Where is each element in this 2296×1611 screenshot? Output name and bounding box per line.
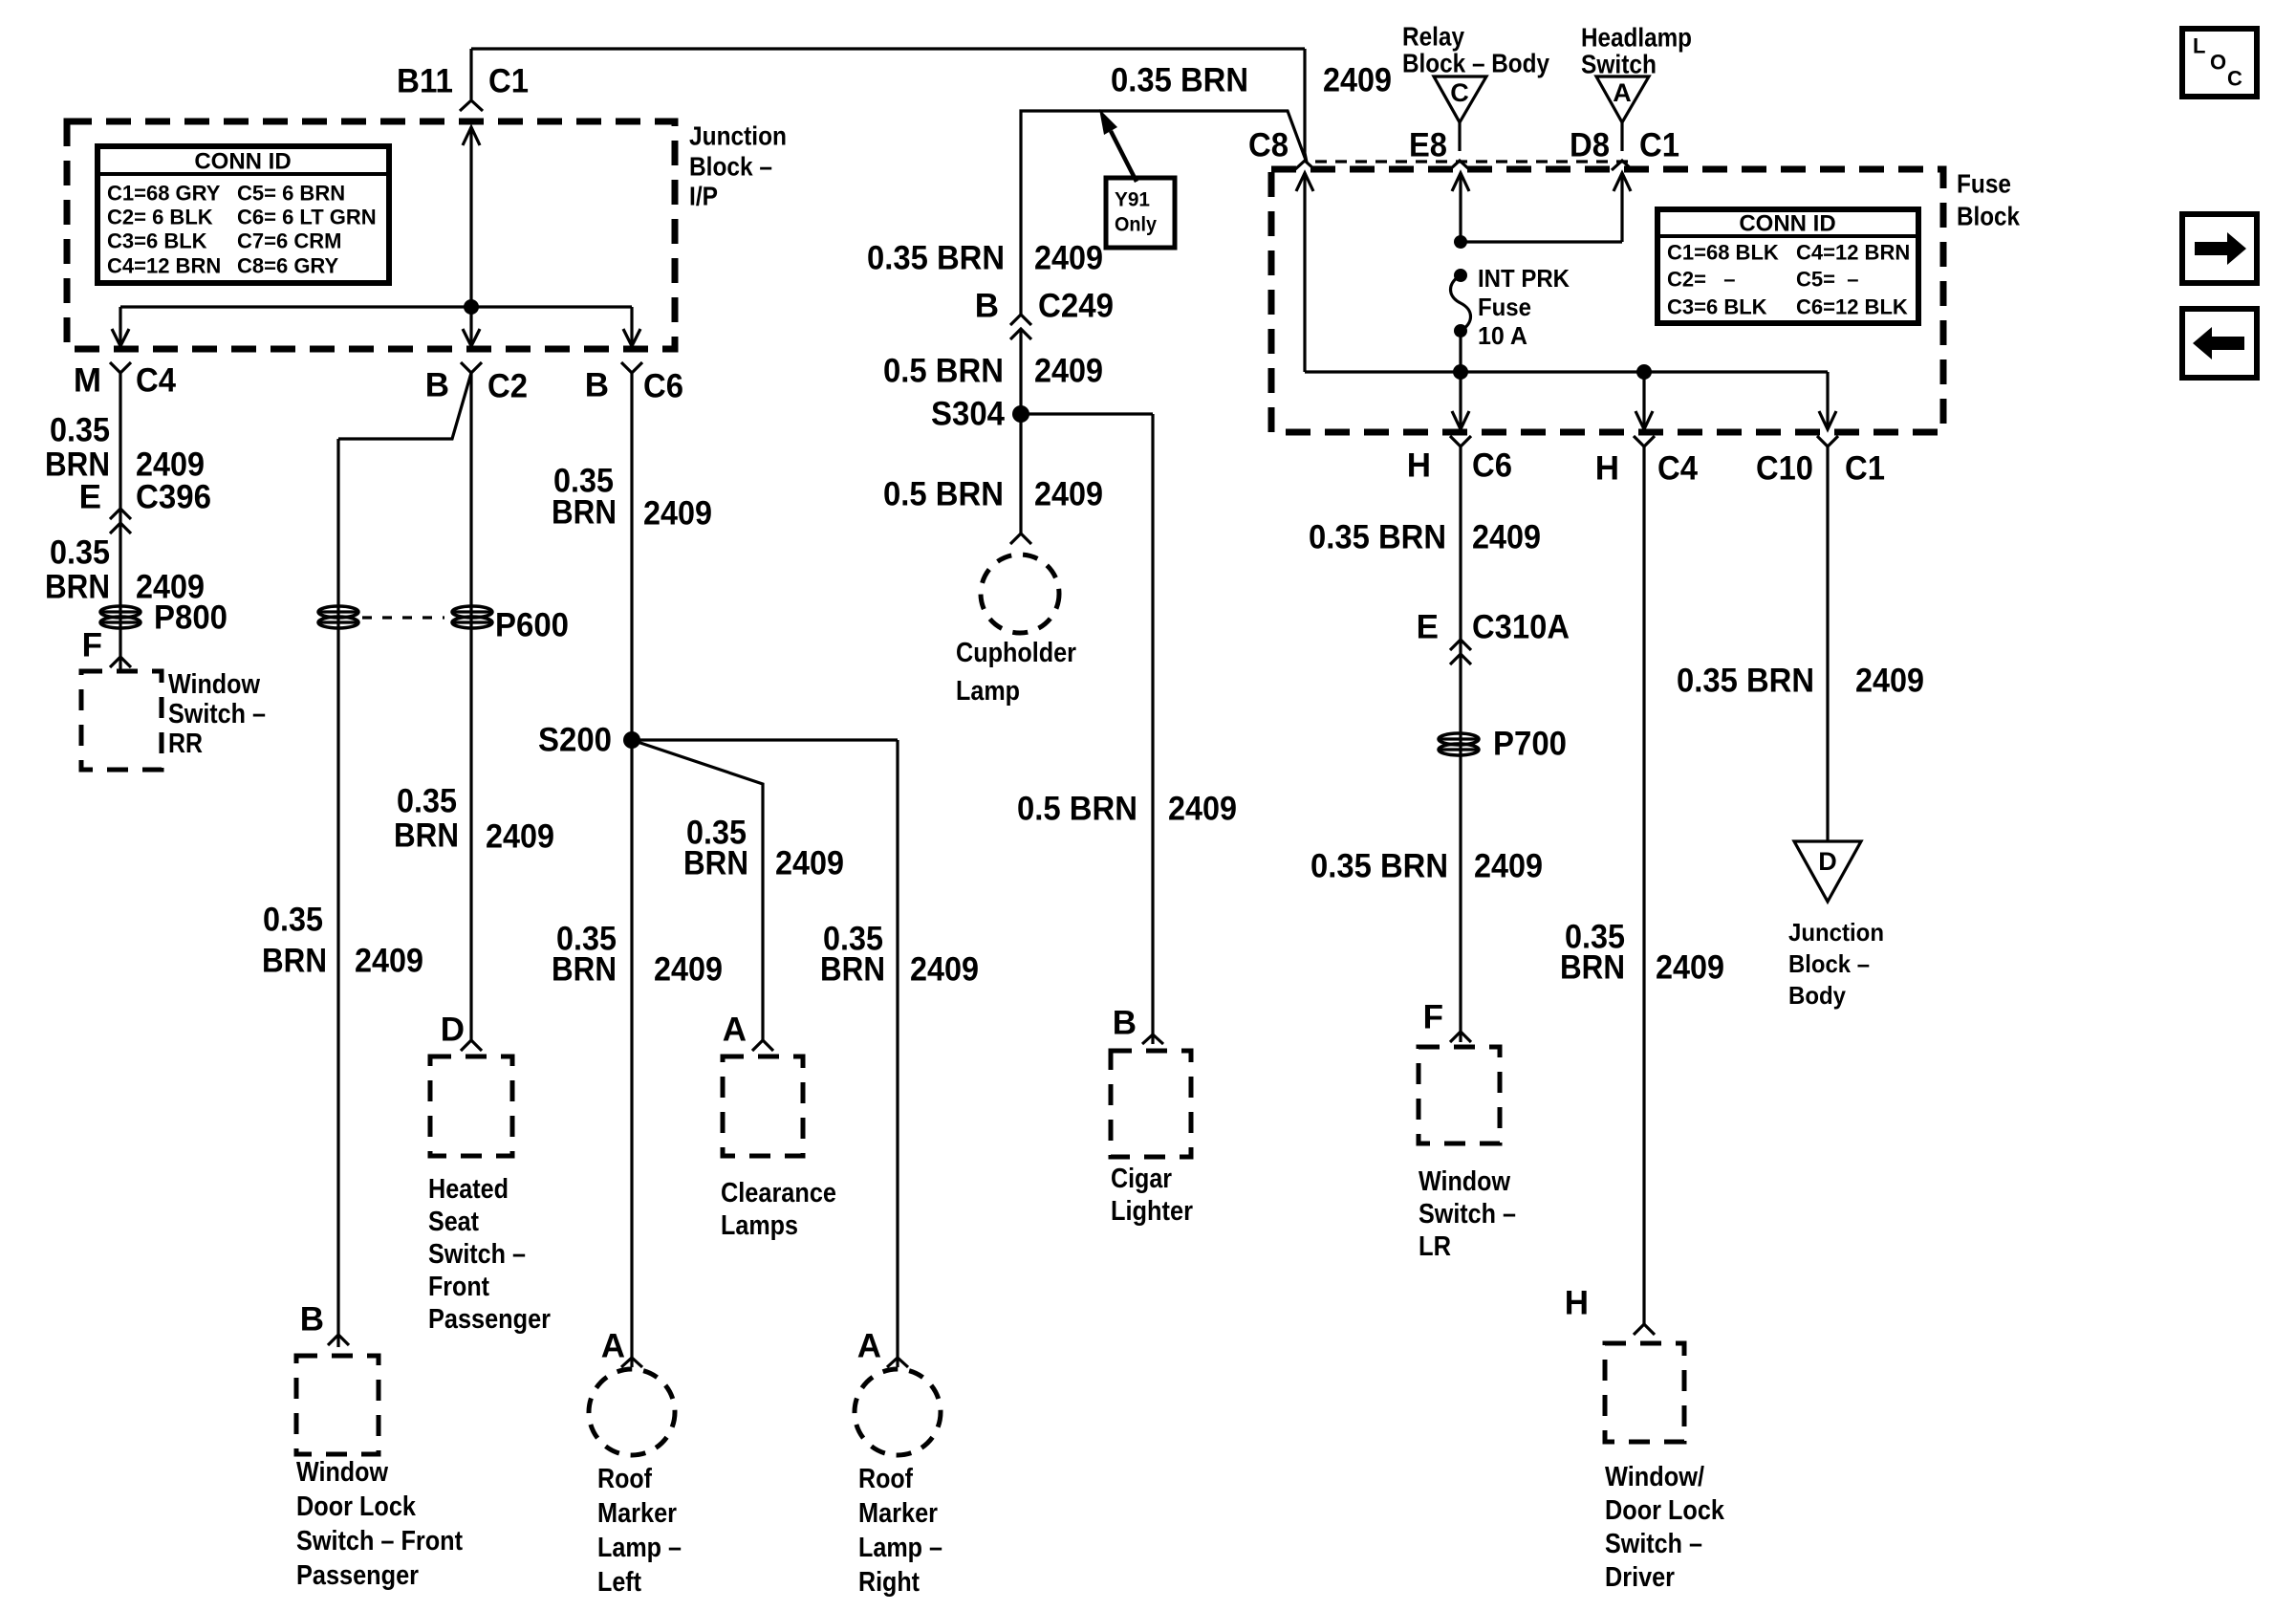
grommet P600 right: [452, 606, 492, 628]
label Headlamp Switch: [1581, 23, 1692, 79]
component roof marker lamp left dashed circle: [589, 1369, 675, 1455]
label 0.35 BRN | 2409 (left branch): [262, 902, 423, 980]
svg-text:D: D: [1818, 847, 1837, 876]
svg-text:S200: S200: [538, 722, 612, 759]
svg-text:0.35 BRN: 0.35 BRN: [1677, 663, 1814, 700]
component cupholder lamp dashed circle: [981, 555, 1059, 633]
component fuse block dashed box: [1271, 169, 1943, 432]
svg-text:H: H: [1565, 1285, 1589, 1322]
svg-text:Lamp –: Lamp –: [858, 1533, 942, 1563]
wire C4 down to window door lock switch driver: [1642, 446, 1645, 1324]
svg-text:2409: 2409: [910, 951, 979, 989]
svg-text:C1: C1: [1845, 450, 1885, 488]
label 0.35 BRN | 2409 (C6 fuse wire): [1309, 519, 1541, 556]
svg-text:2409: 2409: [1034, 353, 1103, 390]
svg-text:C3=6 BLK: C3=6 BLK: [1667, 295, 1767, 319]
svg-text:A: A: [857, 1328, 881, 1365]
component relay block body triangle C: [1434, 76, 1486, 122]
svg-text:2409: 2409: [355, 943, 423, 980]
svg-text:Passenger: Passenger: [428, 1304, 551, 1335]
svg-text:0.35 BRN: 0.35 BRN: [1309, 519, 1446, 556]
wire middle drop from junction dot to C2 exit: [469, 307, 472, 346]
svg-text:C6=12 BLK: C6=12 BLK: [1796, 295, 1908, 319]
svg-text:Switch –: Switch –: [428, 1239, 526, 1270]
svg-text:Lamps: Lamps: [721, 1210, 798, 1241]
svg-text:E: E: [1417, 609, 1439, 646]
svg-text:2409: 2409: [1855, 663, 1924, 700]
svg-text:B: B: [975, 288, 999, 325]
label H | C6: [1407, 447, 1512, 485]
component window door lock switch front passenger dashed box: [296, 1356, 379, 1454]
label 0.35 BRN | 2409 (roof marker right wire): [820, 921, 979, 989]
svg-text:C8=6 GRY: C8=6 GRY: [237, 254, 339, 278]
wire top horizontal B11/C1 to fuse area: [471, 47, 1305, 50]
svg-text:Roof: Roof: [858, 1464, 913, 1494]
svg-text:Only: Only: [1115, 214, 1157, 236]
wire S200 horizontal to roof marker right branch: [632, 738, 898, 741]
svg-text:C1=68 BLK: C1=68 BLK: [1667, 241, 1779, 265]
svg-text:B: B: [585, 367, 609, 404]
wire M/C4 down to window switch RR: [119, 373, 121, 669]
label Clearance Lamps: [721, 1178, 836, 1241]
connector arrow down at C6 exit: [623, 329, 640, 346]
wire right drop from junction horizontal to C6 exit: [630, 307, 633, 346]
Y91 pointer arrow: [1099, 109, 1137, 182]
node fuse top dot: [1454, 269, 1467, 282]
grommet P700: [1439, 733, 1479, 755]
label Window/ Door Lock Switch - Driver: [1605, 1462, 1725, 1593]
CONN ID table (fuse block): [1657, 209, 1918, 323]
svg-text:C396: C396: [136, 479, 211, 516]
wire horizontal E8 to D8 riser: [1461, 240, 1622, 243]
svg-text:C10: C10: [1756, 450, 1813, 488]
connector Y below junction block at C4: [110, 362, 131, 373]
component junction block body triangle D: [1794, 841, 1861, 902]
svg-text:2409: 2409: [486, 818, 554, 856]
component window switch LR dashed box: [1419, 1047, 1500, 1143]
LOC legend box: [2182, 29, 2257, 97]
node splice S304: [1012, 405, 1029, 423]
label Fuse Block: [1957, 169, 2020, 231]
svg-text:2409: 2409: [654, 951, 723, 989]
svg-text:2409: 2409: [1034, 476, 1103, 513]
label H | C4: [1595, 450, 1699, 488]
svg-text:0.35 BRN: 0.35 BRN: [1111, 62, 1248, 99]
svg-text:C4=12 BRN: C4=12 BRN: [1796, 241, 1910, 265]
svg-text:O: O: [2210, 51, 2226, 75]
label Window Switch - LR: [1419, 1166, 1516, 1262]
connector arrow down C1 exit: [1819, 411, 1836, 429]
svg-text:Lamp –: Lamp –: [597, 1533, 682, 1563]
svg-text:C4: C4: [1657, 450, 1698, 488]
svg-text:E8: E8: [1409, 127, 1447, 164]
wire C2 branch diagonal to left: [338, 373, 471, 439]
label B11 | C1: [397, 63, 529, 100]
svg-text:A: A: [1613, 78, 1632, 107]
label Roof Marker Lamp - Left: [597, 1464, 682, 1598]
svg-text:INT PRK: INT PRK: [1478, 264, 1570, 293]
svg-text:0.35 BRN: 0.35 BRN: [867, 240, 1005, 277]
label Relay Block - Body: [1402, 22, 1549, 78]
svg-text:Window/: Window/: [1605, 1462, 1704, 1492]
wire fuse to bus: [1459, 331, 1462, 372]
svg-text:Cupholder: Cupholder: [956, 638, 1076, 668]
label E | C396: [79, 479, 211, 516]
connector arrow down C4 exit: [1635, 411, 1653, 429]
svg-text:BRN: BRN: [262, 943, 327, 980]
label B | C249: [975, 288, 1114, 325]
svg-text:F: F: [82, 627, 102, 664]
connector chevron above window switch LR: [1450, 1032, 1471, 1042]
svg-text:C6= 6 LT GRN: C6= 6 LT GRN: [237, 206, 377, 229]
label B | C6: [585, 367, 683, 405]
svg-text:B: B: [300, 1301, 324, 1339]
connector arrow C1 into junction block: [463, 127, 480, 307]
svg-text:2409: 2409: [1168, 791, 1237, 828]
label 0.5 BRN | 2409 (above S304): [883, 353, 1103, 390]
svg-text:0.35: 0.35: [397, 783, 457, 820]
label 0.35 BRN | 2409 (C4 wire): [45, 412, 205, 484]
svg-text:Headlamp: Headlamp: [1581, 23, 1692, 53]
svg-text:Junction: Junction: [689, 121, 787, 151]
wire C6 drop inside fuse block: [1459, 372, 1462, 429]
svg-text:Driver: Driver: [1605, 1562, 1675, 1593]
connector chevron D8: [1612, 161, 1633, 170]
label 0.35 BRN | 2409 (C6 lower): [552, 921, 723, 989]
svg-text:Switch –: Switch –: [1419, 1199, 1516, 1230]
svg-text:2409: 2409: [1034, 240, 1103, 277]
svg-text:C4=12 BRN: C4=12 BRN: [107, 254, 221, 278]
svg-text:C249: C249: [1038, 288, 1114, 325]
svg-text:C6: C6: [643, 368, 683, 405]
component window switch RR dashed box: [81, 671, 162, 770]
svg-text:C5= 6 BRN: C5= 6 BRN: [237, 182, 345, 206]
svg-text:F: F: [1423, 999, 1443, 1036]
svg-text:Block –: Block –: [1788, 949, 1870, 978]
svg-text:B: B: [1113, 1005, 1137, 1042]
svg-text:LR: LR: [1419, 1231, 1451, 1262]
svg-text:Cigar: Cigar: [1111, 1164, 1172, 1194]
node bus dot at C4 drop: [1636, 364, 1652, 380]
svg-text:C2= –: C2= –: [1667, 268, 1736, 292]
svg-text:BRN: BRN: [552, 494, 617, 532]
component cigar lighter dashed box: [1111, 1051, 1191, 1157]
svg-text:Seat: Seat: [428, 1207, 479, 1237]
connector arrow down at C2 exit: [463, 329, 480, 346]
connector arrow down C6 exit: [1452, 411, 1469, 429]
wire corner down from top horizontal to C8: [1305, 49, 1307, 163]
wire fine dashed connector row: [1315, 160, 1631, 163]
svg-text:Heated: Heated: [428, 1174, 509, 1205]
node bus dot at C6 drop: [1453, 364, 1468, 380]
label M | C4: [74, 362, 177, 400]
svg-text:2409: 2409: [1472, 519, 1541, 556]
wire cigar lighter vertical: [1151, 414, 1154, 1044]
svg-text:A: A: [723, 1012, 747, 1049]
label 0.35 BRN | 2409 (C4 fuse wire): [1560, 919, 1724, 987]
label E | C310A: [1417, 609, 1570, 646]
connector arrow down at C4 exit: [112, 329, 129, 346]
svg-text:CONN ID: CONN ID: [1739, 211, 1835, 237]
label 0.5 BRN | 2409 (cigar wire): [1017, 791, 1237, 828]
svg-text:Front: Front: [428, 1272, 489, 1302]
label 0.35 BRN | 2409 (clearance wire): [683, 815, 844, 882]
wire left branch vertical down to door lock switch: [336, 439, 339, 1347]
wire C6 vertical down to roof marker lamp left: [630, 373, 633, 1367]
CONN ID table (junction block): [97, 146, 389, 283]
svg-text:C: C: [2227, 67, 2242, 91]
svg-text:2409: 2409: [1474, 848, 1543, 885]
svg-text:C4: C4: [136, 362, 176, 400]
svg-text:Passenger: Passenger: [296, 1560, 419, 1591]
connector chevron above heated seat switch: [461, 1040, 482, 1051]
connector chevron above window door lock switch driver: [1634, 1324, 1655, 1335]
svg-text:P600: P600: [495, 607, 569, 644]
svg-text:CONN ID: CONN ID: [194, 149, 291, 175]
connector Y below fuse block at C1: [1817, 436, 1838, 446]
svg-text:B: B: [425, 367, 449, 404]
component heated seat switch dashed box: [430, 1056, 512, 1156]
svg-text:E: E: [79, 479, 101, 516]
svg-text:Window: Window: [1419, 1166, 1510, 1197]
svg-text:Marker: Marker: [858, 1498, 938, 1529]
svg-text:Body: Body: [1788, 981, 1846, 1010]
connector Y below junction block at C6: [621, 362, 642, 373]
component roof marker lamp right dashed circle: [855, 1369, 941, 1455]
label 0.5 BRN | 2409 (below S304): [883, 476, 1103, 513]
connector chevron above cigar lighter: [1142, 1034, 1163, 1044]
svg-text:Block –: Block –: [689, 152, 772, 182]
connector arrow up E8 inside fuse block: [1452, 173, 1469, 191]
svg-text:C310A: C310A: [1472, 609, 1570, 646]
svg-text:BRN: BRN: [683, 845, 748, 882]
wire C2 vertical down to heated seat switch: [469, 373, 472, 1040]
component clearance lamps dashed box: [723, 1056, 803, 1156]
svg-text:D8: D8: [1570, 127, 1610, 164]
wire S304 horizontal to cigar lighter branch: [1021, 412, 1153, 415]
svg-text:Right: Right: [858, 1567, 920, 1598]
node dot E8/D8: [1454, 235, 1467, 249]
label 0.35 BRN | 2409 (top wire): [1111, 62, 1392, 99]
connector chevron above clearance lamps: [752, 1040, 773, 1051]
connector chevron above roof marker lamp left: [621, 1358, 642, 1367]
connector chevron E8: [1449, 161, 1470, 170]
svg-text:10 A: 10 A: [1478, 321, 1527, 350]
junction block I/P dashed box: [67, 121, 675, 349]
connector arrow up C8 inside fuse block: [1296, 173, 1313, 191]
connector chevron B11 above junction block: [460, 100, 483, 111]
wire E8 vertical to junction with D8: [1459, 173, 1462, 242]
svg-text:Lamp: Lamp: [956, 676, 1020, 707]
svg-text:C8: C8: [1248, 127, 1289, 164]
svg-text:P700: P700: [1493, 726, 1567, 763]
label Window Switch - RR: [168, 669, 266, 759]
wire fuse block bus horizontal: [1305, 370, 1828, 373]
svg-text:Window: Window: [168, 669, 260, 700]
svg-text:C3=6 BLK: C3=6 BLK: [107, 229, 207, 253]
svg-text:Y91: Y91: [1115, 189, 1150, 211]
svg-text:Switch: Switch: [1581, 50, 1657, 79]
svg-text:Switch –: Switch –: [168, 699, 266, 729]
connector chevron C8: [1294, 161, 1315, 170]
svg-text:Fuse: Fuse: [1478, 293, 1531, 321]
wire C249 to S304: [1019, 329, 1022, 533]
label 0.35 BRN | 2409 (C2 wire): [394, 783, 554, 856]
svg-text:Block: Block: [1957, 202, 2020, 231]
connector chevron above cupholder lamp: [1010, 533, 1031, 544]
svg-text:2409: 2409: [643, 495, 712, 533]
svg-text:Block – Body: Block – Body: [1402, 49, 1549, 78]
svg-text:C: C: [1450, 78, 1469, 107]
legend arrow left box: [2182, 309, 2257, 378]
grommet P800: [100, 606, 141, 628]
connector chevron above roof marker lamp right: [887, 1358, 908, 1367]
wire C249 riser corner to C8: [1021, 111, 1307, 316]
svg-text:0.5 BRN: 0.5 BRN: [883, 353, 1004, 390]
svg-text:C1: C1: [488, 63, 529, 100]
svg-text:L: L: [2193, 34, 2205, 58]
svg-text:Junction: Junction: [1788, 918, 1884, 947]
svg-text:0.35: 0.35: [50, 412, 110, 449]
svg-text:P800: P800: [154, 599, 227, 637]
svg-text:Left: Left: [597, 1567, 641, 1598]
svg-text:BRN: BRN: [552, 951, 617, 989]
connector C249 double chevron: [1010, 315, 1031, 339]
svg-text:BRN: BRN: [45, 569, 110, 606]
wire C1 down to junction block body: [1826, 446, 1829, 841]
svg-text:A: A: [601, 1328, 625, 1365]
wire roof marker right vertical: [896, 740, 899, 1367]
svg-text:S304: S304: [931, 396, 1005, 433]
label INT PRK Fuse 10 A: [1478, 264, 1570, 350]
component Y91 Only box: [1106, 178, 1175, 248]
wire left drop to C4 exit: [119, 307, 121, 346]
wire S200 diagonal to clearance lamps branch: [632, 740, 763, 1040]
svg-text:Roof: Roof: [597, 1464, 652, 1494]
label Junction Block - Body: [1788, 918, 1884, 1010]
svg-text:C1: C1: [1639, 127, 1679, 164]
svg-text:C7=6 CRM: C7=6 CRM: [237, 229, 341, 253]
svg-text:Switch –: Switch –: [1605, 1529, 1702, 1559]
connector Y below fuse block at C6: [1450, 436, 1471, 446]
connector C396 double chevron: [110, 509, 131, 533]
svg-text:C6: C6: [1472, 447, 1512, 485]
label Window Door Lock Switch - Front Passenger: [296, 1457, 463, 1591]
label Heated Seat Switch - Front Passenger: [428, 1174, 551, 1335]
svg-text:Window: Window: [296, 1457, 388, 1488]
node splice S200: [623, 731, 640, 749]
svg-text:BRN: BRN: [1560, 949, 1625, 987]
wire dashed link between P600 grommets: [362, 616, 444, 619]
svg-text:2409: 2409: [775, 845, 844, 882]
svg-text:Door Lock: Door Lock: [296, 1491, 417, 1522]
label Y91 Only: [1115, 189, 1157, 236]
label Cupholder Lamp: [956, 638, 1076, 707]
grommet P600 left: [318, 606, 358, 628]
label Roof Marker Lamp - Right: [858, 1464, 942, 1598]
svg-text:Clearance: Clearance: [721, 1178, 836, 1208]
svg-text:2409: 2409: [1656, 949, 1724, 987]
svg-text:H: H: [1407, 447, 1431, 485]
wire headlamp triangle to D8: [1620, 122, 1623, 151]
label B | C2: [425, 367, 528, 405]
wire B11 vertical above junction block: [469, 49, 472, 99]
svg-text:C1=68 GRY: C1=68 GRY: [107, 182, 221, 206]
svg-text:0.35 BRN: 0.35 BRN: [1310, 848, 1448, 885]
svg-text:D: D: [441, 1012, 465, 1049]
svg-text:BRN: BRN: [820, 951, 885, 989]
label 0.35 BRN | 2409 (C1 wire): [1677, 663, 1924, 700]
connector chevron above door lock switch front passenger: [328, 1335, 349, 1345]
label 0.35 BRN | 2409 (below P700): [1310, 848, 1543, 885]
connector chevron above window switch RR: [110, 657, 131, 667]
svg-text:C5= –: C5= –: [1796, 268, 1858, 292]
svg-text:Lighter: Lighter: [1111, 1196, 1193, 1227]
legend arrow right box: [2182, 214, 2257, 283]
connector Y below junction block at C2: [461, 362, 482, 373]
svg-text:Switch – Front: Switch – Front: [296, 1526, 463, 1557]
component headlamp switch triangle A: [1596, 76, 1649, 122]
label D8 | C1: [1570, 127, 1679, 164]
svg-text:B11: B11: [397, 63, 453, 100]
svg-text:0.5 BRN: 0.5 BRN: [1017, 791, 1137, 828]
svg-text:0.5 BRN: 0.5 BRN: [883, 476, 1004, 513]
component window door lock switch driver dashed box: [1605, 1343, 1684, 1442]
fuse INT PRK squiggle: [1451, 275, 1471, 331]
svg-text:I/P: I/P: [689, 182, 718, 211]
connector C310A double chevron: [1450, 640, 1471, 664]
svg-text:BRN: BRN: [394, 817, 459, 855]
node junction dot: [464, 299, 479, 315]
label 0.35 BRN | 2409 (below C396): [45, 534, 205, 606]
svg-text:Relay: Relay: [1402, 22, 1464, 52]
label Junction Block - I/P: [689, 121, 787, 211]
svg-text:M: M: [74, 362, 101, 400]
svg-text:C2= 6 BLK: C2= 6 BLK: [107, 206, 213, 229]
node fuse bottom dot: [1454, 324, 1467, 337]
svg-text:Fuse: Fuse: [1957, 169, 2011, 199]
label 0.35 BRN | 2409 (C249 wire): [867, 240, 1103, 277]
svg-text:Door Lock: Door Lock: [1605, 1495, 1725, 1526]
wire D8 riser: [1620, 173, 1623, 242]
svg-text:RR: RR: [168, 729, 203, 759]
svg-text:0.35: 0.35: [50, 534, 110, 572]
label C10 | C1: [1756, 450, 1885, 488]
wire C8 inner vertical to bus: [1303, 173, 1306, 372]
label 0.35 BRN | 2409 (C6 upper): [552, 463, 712, 533]
svg-text:C2: C2: [487, 368, 528, 405]
svg-text:2409: 2409: [1323, 62, 1392, 99]
wire C1 drop inside fuse block: [1826, 372, 1829, 429]
wire horizontal inside junction block: [120, 305, 632, 308]
svg-text:Marker: Marker: [597, 1498, 677, 1529]
wire C6 down to window switch LR: [1459, 446, 1462, 1042]
label Cigar Lighter: [1111, 1164, 1193, 1227]
svg-text:0.35: 0.35: [263, 902, 323, 939]
svg-text:H: H: [1595, 450, 1619, 488]
connector Y below fuse block at C4: [1634, 436, 1655, 446]
connector arrow up D8 inside fuse block: [1614, 173, 1631, 191]
wire C4 drop inside fuse block: [1642, 372, 1645, 429]
wire relay triangle to E8: [1458, 122, 1461, 151]
